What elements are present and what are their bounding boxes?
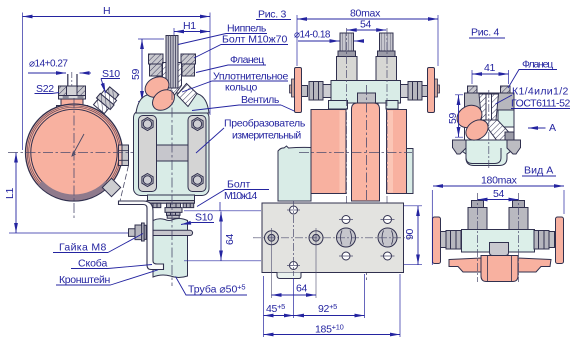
right salmon cylinder (387, 110, 407, 194)
viewA left disc (433, 217, 441, 264)
dim 59 side view line (141, 39, 143, 101)
clamp bolt head (129, 229, 136, 237)
clamp bolt shaft (146, 230, 193, 235)
dim H right extension (209, 13, 211, 116)
plate bolt 3 (183, 203, 194, 207)
bracket hidden edge dash (120, 166, 129, 202)
viewA centerlines (478, 193, 519, 282)
viewA bottom salmon left wing (449, 258, 481, 272)
centerline vertical of circle (73, 98, 75, 219)
right stem washer (422, 86, 428, 97)
viewA dims (432, 176, 564, 265)
clamp washer 2 (144, 225, 146, 239)
dim 41 line (472, 73, 509, 75)
viewA center tab (490, 243, 509, 256)
left side plate (139, 116, 157, 192)
viewA right disc (556, 217, 564, 264)
washer left centerline (271, 228, 273, 298)
right nipple threaded stud (380, 33, 394, 51)
viewA left hex (446, 231, 461, 250)
ring groove 2 (31, 109, 117, 195)
cross ticks small holes (287, 210, 395, 266)
svg-text:Н: Н (103, 5, 110, 17)
fig4 bottom wings grey (453, 140, 521, 154)
dim 54A line (478, 199, 519, 201)
svg-text:59: 59 (447, 112, 459, 124)
dim 54 top line (347, 29, 387, 31)
fig4 bottom tub inner (466, 148, 501, 164)
top collar salmon (57, 106, 88, 112)
leader vent right to fig3 valve (281, 105, 298, 113)
dim H left extension (22, 13, 24, 151)
main body rounded (134, 111, 210, 196)
leader pipe (176, 277, 248, 296)
base plate (262, 203, 404, 273)
right tab grey part (122, 145, 129, 166)
body top cap right (386, 101, 398, 110)
dim d14-018 right arrow (354, 40, 362, 42)
leader bolt M10x14 (197, 190, 269, 207)
viewA bottom salmon hump (481, 256, 518, 282)
dim 59 top extension (138, 38, 164, 40)
washer plate squares (63, 96, 84, 99)
hex bolt bottom-left (142, 174, 153, 187)
dim L1 line (15, 153, 17, 234)
manifold center plug lower (355, 103, 378, 108)
right cylinder highlight (388, 111, 394, 193)
dim 80max left ext (296, 15, 298, 66)
dim 41 ext right (508, 70, 510, 84)
pipe (153, 218, 188, 277)
nipple tube (166, 36, 178, 89)
flange bolt left head (149, 54, 164, 64)
viewA nipple left (468, 208, 487, 230)
big hole right (378, 228, 397, 247)
svg-text:45+5: 45+5 (266, 302, 285, 315)
svg-text:59: 59 (130, 68, 142, 80)
leader nut M8 (53, 234, 143, 253)
hex bolt bottom-right (192, 174, 203, 187)
leader bolt M10x70 (194, 45, 288, 59)
svg-text:S10: S10 (195, 212, 213, 224)
small hole above big right (384, 216, 392, 224)
title fig3 underline (256, 19, 291, 21)
right handwheel disc (428, 68, 435, 113)
clamp washer big (142, 223, 145, 241)
manifold block (331, 81, 401, 104)
hex bolt top-left (142, 118, 153, 131)
circle bottom dark arc (41, 183, 108, 197)
svg-text:L1: L1 (4, 187, 16, 199)
svg-text:64: 64 (224, 233, 236, 245)
svg-text:185+10: 185+10 (315, 323, 344, 336)
bottom right diamond pad (102, 178, 120, 196)
left handwheel disc (295, 68, 302, 113)
bottom neck (148, 195, 195, 201)
flange bolt right shank (182, 64, 195, 76)
S10 hex nut (167, 212, 181, 215)
fig4 flange top grey band (465, 93, 515, 110)
svg-text:54: 54 (360, 19, 372, 31)
manifold center plug (358, 93, 376, 103)
dim 59 fig4 ext (455, 95, 463, 137)
leader bracket (56, 270, 158, 285)
S10 washer under plate (165, 208, 182, 213)
dim 45+5 line (264, 315, 295, 317)
seal blob 1 (142, 73, 173, 102)
stud centerline (71, 72, 73, 86)
washer hole left (265, 231, 279, 245)
dim 90 ext bottom (404, 264, 422, 266)
dim d14-018 leader (298, 40, 340, 42)
dim 80max right ext (437, 15, 439, 66)
svg-text:А: А (549, 122, 556, 134)
center salmon cylinder (352, 103, 380, 201)
svg-text:ГОСТ6111-52: ГОСТ6111-52 (511, 98, 570, 110)
nipple tube threads (168, 36, 175, 89)
viewA nipple right cap (513, 201, 525, 208)
flange bolt right head (181, 54, 196, 64)
dim 64 side line (220, 212, 222, 261)
svg-text:180max: 180max (481, 175, 518, 187)
dim 59 fig4 line (458, 95, 460, 137)
dim L1 bottom extension (9, 232, 128, 234)
body right cyan edge (407, 149, 414, 194)
left stem hex (309, 82, 323, 101)
outer circle body (26, 104, 123, 201)
fig3 left nipple centerline (346, 28, 348, 266)
small hole below big left (342, 252, 350, 260)
hex nut S22 washer plate (59, 96, 86, 100)
svg-text:54: 54 (493, 188, 505, 200)
fig4 bolt left (468, 86, 478, 93)
right disc hub (435, 79, 440, 97)
flange hatched center (163, 63, 182, 96)
fig4 seal blob 1 (453, 101, 486, 132)
viewA left washers (441, 232, 447, 248)
dim 64 extension top (184, 210, 261, 212)
dim 80max line (297, 18, 438, 20)
dim 41 ext left (471, 70, 473, 84)
dim H line (23, 16, 211, 18)
small hole above big left (342, 216, 350, 224)
leader flange (196, 65, 266, 73)
svg-text:⌀14+0.27: ⌀14+0.27 (29, 59, 68, 70)
ext col294 (293, 278, 295, 318)
dim 64 arrow above (219, 202, 221, 211)
fig4 hatched seat right (492, 94, 499, 120)
viewA hump facet lines (488, 256, 512, 282)
flange bolt left shank (150, 64, 163, 76)
stud prongs (68, 74, 77, 86)
hex bolt top-right (192, 118, 203, 131)
right tab divisions (119, 151, 129, 161)
title fig4 underline (469, 37, 505, 39)
leader K14 (496, 95, 513, 104)
left nipple body (337, 57, 358, 81)
fig4 hatched channel diag (482, 120, 511, 140)
tab under plate (277, 273, 301, 279)
right stem hex (408, 82, 422, 101)
fig4 bolt right (501, 86, 511, 93)
leader skoba (71, 265, 152, 269)
viewA right hex (534, 231, 549, 250)
dim H1 left extension (173, 28, 175, 38)
leader vent (192, 105, 281, 111)
svg-text:Фланец: Фланец (230, 54, 264, 66)
svg-text:Преобразователь: Преобразователь (224, 118, 306, 130)
big hole left (337, 228, 356, 247)
dim 180max ext right (563, 190, 565, 214)
side view vertical centerline (171, 90, 173, 286)
dim 64 bottom line (272, 294, 317, 296)
fig4 seal blob 2 (462, 116, 492, 145)
fig3 horizontal centerline (299, 152, 412, 154)
fig4 hatched seat (479, 94, 486, 120)
viewA nipple left cap (472, 201, 484, 208)
dim 90 ext top (404, 205, 422, 207)
col centerline small holes (293, 201, 295, 276)
body left cyan section (278, 146, 311, 201)
svg-text:кольцо: кольцо (225, 82, 257, 94)
svg-text:Вид А: Вид А (524, 165, 553, 177)
plate bolt 1 (150, 203, 161, 207)
fig4 bottom body (453, 140, 521, 166)
plate centerlines (253, 201, 412, 298)
leader S10 lower (181, 223, 214, 225)
viewA title underline (522, 175, 556, 177)
svg-text:Н1: Н1 (183, 20, 196, 32)
hex nut S22 hatched left facet (59, 86, 67, 96)
right side plate (188, 116, 206, 192)
viewA right washers (549, 232, 555, 248)
svg-text:К1/4или1/2: К1/4или1/2 (512, 86, 568, 98)
small hole below big right (384, 252, 392, 260)
washer hole mid (309, 231, 323, 245)
fig4 flange cyan right (498, 110, 514, 127)
svg-text:90: 90 (404, 228, 416, 240)
viewA nipple right centerline (518, 193, 520, 282)
leader flanec fig4 (508, 70, 557, 89)
bracket L profile (119, 201, 164, 270)
clamp nut M8 hex (135, 225, 142, 240)
viewA nipple left centerline (477, 193, 479, 282)
fig4 centerline (488, 90, 490, 168)
fig4 grey corner (505, 132, 514, 140)
vent hatched wedge (177, 84, 197, 107)
body top dome (136, 88, 209, 113)
svg-text:64: 64 (296, 283, 308, 295)
fig3 right nipple centerline (386, 28, 388, 266)
angled vent connector (92, 85, 121, 115)
svg-text:М10ж14: М10ж14 (224, 190, 257, 202)
left nipple threaded stud (340, 33, 354, 51)
dim d14+0.27 arrow right (80, 72, 92, 74)
right tab to side view (119, 145, 123, 166)
body top cap left (329, 101, 348, 110)
fig3 main vertical centerline (366, 85, 368, 280)
small hole top-left col (290, 206, 298, 214)
gost underline (511, 108, 570, 110)
svg-text:Болт М10ж70: Болт М10ж70 (222, 34, 287, 46)
svg-text:Рис. 4: Рис. 4 (471, 27, 499, 39)
fig4 center slot (486, 94, 492, 127)
svg-text:41: 41 (484, 62, 496, 74)
ring groove 1b (29, 107, 120, 198)
hex nut S22 body (59, 86, 86, 96)
view A arrow (528, 127, 546, 129)
dim 59 bottom extension (138, 101, 146, 103)
top neck salmon (61, 98, 83, 106)
leader transducer (196, 128, 224, 153)
left disc hub (290, 79, 295, 97)
ext right 400 (399, 274, 401, 337)
S10 washer 2 (167, 215, 179, 218)
svg-text:Вентиль: Вентиль (241, 94, 280, 106)
svg-text:Труба ⌀50+5: Труба ⌀50+5 (188, 283, 245, 296)
svg-text:измерительный: измерительный (232, 130, 301, 142)
seal blob 2 (149, 86, 179, 115)
svg-text:Кронштейн: Кронштейн (59, 274, 111, 286)
dim 180max line (433, 185, 564, 187)
svg-text:Болт: Болт (227, 179, 250, 191)
svg-text:Скоба: Скоба (78, 258, 107, 270)
dim H1 line (174, 31, 210, 33)
plate hline centerline (253, 237, 412, 239)
svg-text:Рис. 3: Рис. 3 (258, 9, 286, 21)
inner pointer mark (72, 134, 84, 156)
plate bolt 2 (167, 203, 181, 207)
fig4 flange main block (465, 93, 515, 140)
ring groove 1 (27, 106, 121, 200)
viewA main body (462, 230, 535, 253)
svg-text:⌀14-0.18: ⌀14-0.18 (294, 30, 331, 41)
leader seal ring (182, 81, 288, 92)
dim d14+0.27 line left (28, 72, 66, 74)
mounting plate (147, 201, 195, 204)
dim 90 line (417, 206, 419, 265)
viewA bottom salmon right wing (518, 258, 551, 272)
svg-text:Гайка М8: Гайка М8 (59, 242, 106, 254)
center boss grey (157, 145, 189, 161)
right nipple hex collar (378, 51, 396, 57)
dim 180max ext left (431, 190, 433, 265)
hex nut S22 hatched right facet (77, 86, 86, 96)
right nipple body (376, 57, 397, 81)
svg-text:92+5: 92+5 (318, 302, 337, 315)
dim 64 extension bottom (184, 260, 261, 262)
ext plate left (263, 276, 265, 337)
svg-text:Фланец: Фланец (522, 59, 553, 71)
left salmon cylinder (311, 110, 346, 194)
fig4 dims (455, 70, 570, 138)
viewA nipple right (509, 208, 528, 230)
left nipple hex collar (338, 51, 356, 57)
left stem collar (323, 85, 331, 98)
ext 364 (364, 274, 366, 318)
right stem collar (400, 85, 408, 98)
small hole bottom-left col (290, 262, 298, 270)
dim 185+10 line (264, 334, 401, 336)
centerline horizontal of circle (8, 152, 138, 154)
washer mid centerline (315, 228, 317, 298)
dim 92+5 line (294, 315, 365, 317)
leader nipple (178, 34, 267, 45)
left stem washer (302, 86, 308, 97)
left cylinder highlight (340, 111, 346, 193)
